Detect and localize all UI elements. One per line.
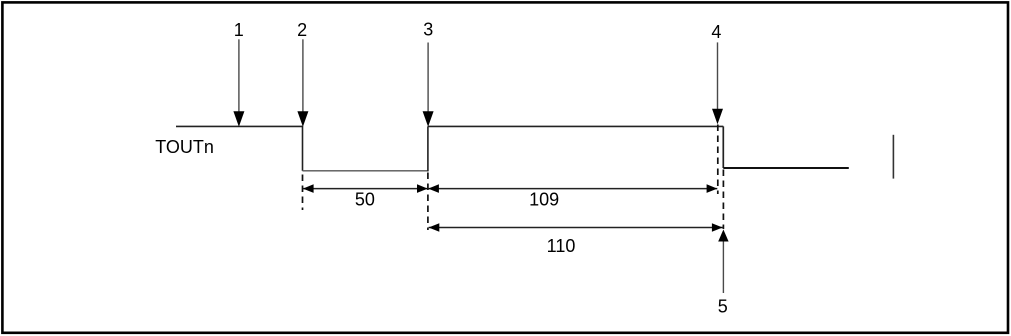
svg-text:1: 1 [234, 20, 244, 40]
svg-text:4: 4 [711, 22, 721, 42]
svg-text:50: 50 [355, 189, 375, 209]
svg-text:110: 110 [547, 236, 576, 256]
svg-text:TOUTn: TOUTn [155, 137, 214, 157]
svg-text:2: 2 [297, 20, 307, 40]
svg-text:3: 3 [423, 19, 433, 39]
svg-text:109: 109 [529, 189, 559, 209]
svg-text:5: 5 [718, 296, 728, 316]
